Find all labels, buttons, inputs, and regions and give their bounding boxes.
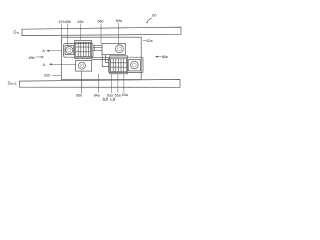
- label 64b: [98, 20, 104, 24]
- wire TFT1 to upper contact box top edge: [93, 45, 102, 47]
- TFT1 semiconductor island: [75, 40, 92, 58]
- svg-text:69a: 69a: [116, 19, 122, 23]
- svg-text:A: A: [42, 49, 45, 53]
- gate electrode region big rect: [61, 37, 141, 79]
- svg-text:64b: 64b: [98, 20, 104, 24]
- section letters A B underlined: [103, 97, 109, 101]
- svg-text:69b: 69b: [29, 56, 35, 60]
- TFT1 contact hole circle: [66, 47, 73, 54]
- svg-text:n+1: n+1: [11, 82, 17, 86]
- L-shaped electrode outer edge: [102, 55, 108, 67]
- label Gn+1: [8, 81, 17, 87]
- lower contact hole circle: [78, 62, 85, 69]
- svg-text:63b: 63b: [78, 20, 84, 24]
- svg-text:62a: 62a: [147, 39, 153, 43]
- label 65b: [65, 20, 71, 24]
- TFT1 outer box: [64, 44, 93, 58]
- svg-text:A B: A B: [103, 97, 109, 101]
- svg-text:65a: 65a: [115, 93, 121, 97]
- TFT1 hatched channel block: [76, 42, 91, 56]
- label 69a: [116, 19, 122, 23]
- leader 63a: [110, 74, 112, 93]
- svg-text:66a: 66a: [162, 55, 168, 59]
- label 66a with left arrow: [155, 56, 158, 58]
- gate line Gn bar: [22, 27, 181, 35]
- svg-text:65b: 65b: [65, 20, 71, 24]
- L-shaped electrode inner edge: [106, 55, 109, 63]
- svg-text:G: G: [8, 81, 11, 86]
- TFT2 outer box: [109, 57, 143, 72]
- wire island to TFT2 upper line: [92, 57, 110, 59]
- svg-text:62b: 62b: [44, 74, 50, 78]
- TFT2 contact hole circle: [131, 61, 139, 69]
- svg-text:64a: 64a: [94, 94, 100, 98]
- wire island to TFT2 lower line: [92, 59, 110, 61]
- gate line Gn+1 bar: [19, 79, 180, 87]
- label 68a: [122, 93, 128, 97]
- label 60 with arrow: [152, 14, 156, 18]
- leader 67b: [60, 24, 62, 44]
- svg-text:66b: 66b: [76, 94, 82, 98]
- label Gn: [13, 30, 19, 36]
- leader 69a: [118, 23, 120, 45]
- svg-text:67b: 67b: [59, 20, 65, 24]
- svg-text:n: n: [17, 31, 19, 35]
- leader 65b: [67, 24, 69, 46]
- drain electrode lower edge: [92, 49, 102, 51]
- svg-text:63a: 63a: [122, 93, 128, 97]
- leader 68a: [123, 74, 125, 93]
- section marker A lower: [43, 63, 46, 67]
- label 65a: [115, 93, 121, 97]
- leader 64a: [98, 74, 100, 93]
- wire lower box down through Gn+1 to label 66b: [81, 71, 83, 93]
- leader 64b: [100, 23, 102, 43]
- label 69b with arrow: [29, 56, 35, 60]
- lower contact box: [76, 60, 92, 71]
- TFT2 semiconductor island: [110, 56, 128, 74]
- svg-text:L B: L B: [110, 97, 116, 101]
- label 67b: [59, 20, 65, 24]
- section letters L B underlined: [110, 97, 116, 101]
- label 64a: [94, 94, 100, 98]
- label 62b with leader: [44, 74, 50, 78]
- leader 63b: [80, 24, 82, 41]
- wire TFT1 to upper contact box bottom edge: [93, 47, 102, 49]
- TFT2 hatched channel block: [111, 59, 127, 72]
- svg-text:G: G: [13, 30, 16, 35]
- leader 65a: [117, 74, 119, 93]
- upper contact hole circle: [116, 45, 124, 53]
- label 63b: [78, 20, 84, 24]
- upper contact box: [102, 43, 125, 54]
- label 66b: [76, 94, 82, 98]
- TFT1 contact square: [65, 46, 74, 55]
- section marker A upper: [42, 49, 45, 53]
- label 63a: [107, 93, 113, 97]
- drain electrode notch: [93, 46, 95, 51]
- TFT2 contact square: [128, 60, 140, 71]
- label 62a with dash: [143, 39, 146, 41]
- svg-text:A: A: [43, 63, 46, 67]
- svg-text:60: 60: [152, 14, 156, 18]
